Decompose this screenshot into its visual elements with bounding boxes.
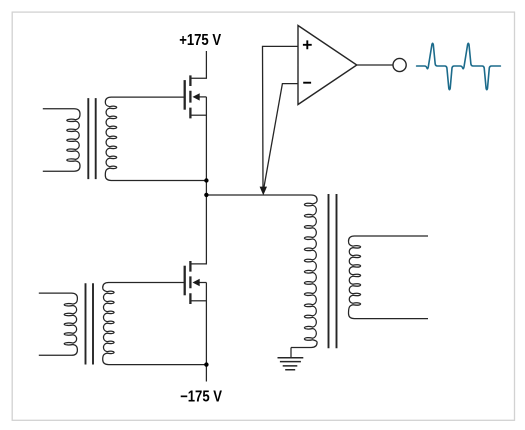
transformer T3 secondary winding bbox=[349, 236, 429, 319]
transformer T2 secondary winding bbox=[103, 283, 205, 365]
wire Q1 source to node A bbox=[205, 97, 207, 181]
transistor Q2 channel bars bbox=[189, 261, 191, 304]
transistor Q1 source lead bbox=[191, 114, 207, 116]
wire node A to node B bbox=[205, 181, 207, 195]
op-amp U1 triangle bbox=[298, 26, 357, 105]
wire op-amp output bbox=[357, 64, 393, 66]
junction node C bbox=[204, 362, 208, 366]
wire node B to Q2 drain bbox=[191, 195, 207, 264]
wire node C to -175V stub bbox=[205, 365, 207, 382]
wire node B to T3 primary bbox=[205, 194, 208, 196]
svg-text:+175 V: +175 V bbox=[179, 32, 221, 49]
ground symbol bbox=[278, 358, 304, 370]
transformer T2 primary winding bbox=[39, 293, 78, 355]
svg-text:−175 V: −175 V bbox=[180, 388, 222, 405]
transformer T1 secondary winding bbox=[105, 97, 205, 180]
junction node A bbox=[204, 178, 208, 182]
transistor Q2 source lead bbox=[191, 300, 207, 302]
wire T3 primary to ground bbox=[290, 348, 292, 358]
transistor Q2 gate bar bbox=[184, 266, 186, 296]
op-amp minus sign bbox=[303, 82, 311, 84]
transistor Q1 body arrow bbox=[193, 93, 200, 100]
transformer T3 primary winding bbox=[207, 195, 317, 348]
junction node B bbox=[204, 193, 208, 197]
probe arrowhead at node B bbox=[260, 187, 267, 196]
transistor Q2 body arrow bbox=[193, 279, 200, 286]
wire op-amp inverting input bbox=[264, 84, 298, 189]
output terminal circle bbox=[393, 58, 406, 71]
transformer T3 core bbox=[329, 194, 337, 348]
transistor Q1 gate bar bbox=[184, 80, 186, 110]
output waveform trace bbox=[417, 43, 501, 89]
wire Q2 source to node C bbox=[205, 283, 207, 365]
op-amp plus sign bbox=[303, 40, 312, 49]
wire +175V supply to Q1 drain bbox=[191, 51, 207, 78]
transformer T2 core bbox=[86, 283, 94, 364]
transistor Q1 body lead bbox=[199, 96, 207, 98]
transformer T1 primary winding bbox=[43, 109, 80, 172]
transformer T1 core bbox=[88, 98, 95, 179]
transistor Q1 channel bars bbox=[189, 75, 191, 118]
wire op-amp noninverting input bbox=[263, 46, 298, 188]
transistor Q2 body lead bbox=[199, 282, 207, 284]
